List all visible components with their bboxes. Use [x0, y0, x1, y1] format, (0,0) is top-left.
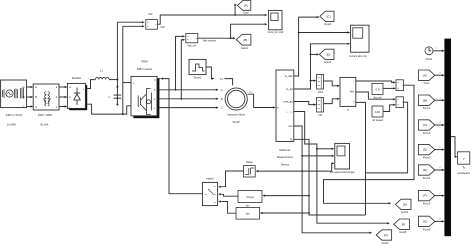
- from tag [A]: [418, 70, 434, 80]
- svg-text:From4: From4: [423, 176, 431, 180]
- svg-text:Vab_inv: Vab_inv: [187, 44, 197, 48]
- block: Induction Motor (asynchronous machine): [225, 88, 247, 110]
- svg-text:Goto5: Goto5: [399, 230, 407, 234]
- wire: from D to mux: [435, 149, 443, 151]
- svg-text:-: -: [133, 104, 134, 108]
- node: wm branch to relay and scope input 3: [301, 170, 303, 172]
- svg-text:[B]: [B]: [244, 38, 248, 42]
- wire: Relay output to switch input 1: [221, 171, 243, 187]
- block: Machines Measurement Demux: [276, 70, 294, 142]
- svg-text:Wm: Wm: [350, 91, 354, 93]
- svg-text:C: C: [23, 105, 25, 109]
- svg-text:[G]: [G]: [384, 233, 388, 237]
- wire: mux output to workspace: [451, 137, 456, 157]
- svg-text:C: C: [108, 95, 110, 99]
- block: CD1 (flux calc): [317, 74, 324, 89]
- wire: 0.9 to mux3 input 2: [383, 87, 394, 89]
- node: junction to Goto A: [234, 14, 236, 16]
- svg-text:wm: wm: [289, 125, 293, 128]
- svg-text:10 MVA: 10 MVA: [7, 122, 16, 126]
- scope: flux speed and torque: [335, 143, 350, 169]
- wire: is_abc to current scope input 1: [299, 32, 348, 34]
- node: is_qd branch to Goto3: [310, 54, 312, 56]
- wire: tap A up to Vab_inv input 1: [176, 36, 184, 89]
- svg-text:B: B: [221, 97, 223, 101]
- wire: scope input 3 feed running right: [302, 163, 332, 171]
- svg-text:From6: From6: [423, 227, 431, 231]
- wire: from B to mux: [435, 99, 443, 101]
- node: is_abc branch to current scope: [298, 32, 300, 34]
- goto tag [E]: [395, 199, 411, 209]
- wire: from E to mux: [435, 169, 443, 171]
- wire: Vdc sensor output to top bus line: [157, 15, 235, 24]
- mux: speed and ref speed: [396, 97, 403, 108]
- svg-text:[F]: [F]: [423, 194, 427, 198]
- node: Vab junction: [230, 37, 232, 39]
- wire: source A to transformer A: [27, 86, 31, 88]
- svg-text:Measurement: Measurement: [277, 155, 293, 159]
- svg-text:Tm: Tm: [220, 78, 224, 81]
- clock block: [425, 47, 433, 55]
- wire: switch output to inverter gate g: [162, 79, 202, 194]
- block: Relay: [243, 166, 255, 177]
- svg-text:wm: wm: [246, 213, 251, 216]
- node: tap on phase B for Vab: [180, 98, 182, 100]
- block: three-phase transformer 25kV/460V: [33, 84, 59, 110]
- wire: branch up to Goto tag A: [234, 5, 237, 15]
- svg-text:[D]: [D]: [327, 52, 331, 56]
- wire: rectifier + output up to L1: [85, 80, 95, 89]
- wire: wm output long vertical to Goto6: [294, 126, 370, 233]
- goto tag [A]: [237, 1, 250, 11]
- svg-text:Goto3: Goto3: [324, 60, 332, 64]
- svg-text:50 HP: 50 HP: [233, 120, 240, 124]
- block: Vdc voltage measurement: [146, 20, 158, 30]
- scope: current abc dq: [351, 25, 369, 52]
- node: capacitor bottom junction: [116, 104, 118, 106]
- svg-text:Goto2: Goto2: [324, 22, 332, 26]
- svg-text:Goto6: Goto6: [381, 241, 389, 245]
- block: torque selector: [238, 191, 262, 203]
- wire: Vab to Goto tag B: [231, 37, 234, 39]
- svg-text:-: -: [83, 104, 84, 108]
- wire: ct output 1 to mux3 input 1: [356, 81, 394, 82]
- svg-text:Vab inverter: Vab inverter: [203, 38, 217, 42]
- wire: Timer output to Tm: [206, 67, 212, 79]
- svg-text:[E]: [E]: [403, 203, 407, 207]
- wire: wm branch to flux scope input 2: [302, 155, 332, 157]
- wire: branch to wm block: [262, 212, 309, 214]
- node: flux branch to scope input 1: [316, 148, 318, 150]
- svg-text:workspace: workspace: [457, 171, 470, 175]
- svg-text:CD: CD: [319, 113, 323, 117]
- svg-text:Clock: Clock: [426, 57, 433, 61]
- block: CD (flux calc): [317, 97, 324, 112]
- svg-text:A: A: [35, 85, 37, 89]
- svg-text:Vdc: Vdc: [148, 12, 153, 16]
- svg-text:Goto1: Goto1: [241, 46, 249, 50]
- node: tap on phase A for Vab: [175, 89, 177, 91]
- from tag [C]: [418, 120, 434, 130]
- svg-text:[C]: [C]: [423, 123, 427, 127]
- wire: CD output to controller input 2: [324, 99, 338, 104]
- wire: ct Wm output to mux4 input 1: [356, 92, 394, 99]
- wire: DC plus rail to Vdc sensor input: [117, 21, 142, 23]
- goto tag [F]: [394, 219, 410, 229]
- svg-text:[E]: [E]: [423, 168, 427, 172]
- wire: from F to mux: [435, 195, 443, 197]
- wire: phase B inverter to motor: [159, 98, 216, 100]
- block: Timer (step source): [189, 59, 206, 74]
- node: is_qd branch to CD1: [310, 80, 312, 82]
- wire: relay feed running left: [258, 170, 303, 172]
- block: PWM IGBT Inverter: [133, 79, 159, 118]
- svg-text:[G]: [G]: [423, 220, 427, 224]
- block: ct vector controller subsystem: [340, 77, 356, 106]
- constant: 0.9 flux reference: [372, 83, 383, 94]
- wire: transformer c to rectifier C: [59, 106, 65, 108]
- wire: DC bus positive rail vertical: [116, 22, 118, 104]
- wire: Te output long vertical: [294, 139, 366, 215]
- wire: Te branch to torque block: [264, 195, 309, 197]
- wire: rectifier minus to inverter minus staple: [85, 104, 131, 114]
- svg-text:50 kVA: 50 kVA: [40, 122, 48, 126]
- svg-text:is_abc: is_abc: [285, 74, 293, 78]
- svg-text:Timer1: Timer1: [194, 75, 203, 79]
- svg-text:25kV / 460V: 25kV / 460V: [38, 113, 52, 117]
- wire: from G to mux: [435, 220, 443, 222]
- svg-text:Rectifier: Rectifier: [72, 76, 82, 80]
- icon: IGBT symbol inside inverter: [138, 89, 151, 115]
- svg-text:ct: ct: [347, 108, 349, 112]
- goto tag [G]: [376, 230, 391, 240]
- svg-text:Goto4: Goto4: [401, 210, 409, 214]
- block: Rectifier (diode bridge): [69, 85, 87, 110]
- block: three-phase voltage source 25 kV 50 Hz: [1, 80, 27, 108]
- node: wm branch to flux scope input 2: [301, 155, 303, 157]
- wire: tap B up to Vab_inv input 2: [181, 40, 183, 99]
- wire: DC bus negative rail vertical: [122, 26, 124, 114]
- wire: is_qd to vertical riser: [294, 44, 348, 89]
- svg-text:CD1: CD1: [318, 90, 324, 94]
- wire: torque block output to switch input 2: [221, 194, 238, 196]
- svg-text:Vdc: Vdc: [160, 25, 165, 29]
- from tag [G]: [418, 216, 434, 226]
- wire: ct T output down long vertical: [356, 102, 366, 215]
- wire: clock to mux input 1: [433, 50, 442, 52]
- svg-text:PWM: PWM: [141, 59, 147, 63]
- from tag [D]: [418, 144, 434, 154]
- wire: phase C inverter to motor: [159, 107, 216, 109]
- wire: CD1 output to controller input 1: [324, 81, 338, 86]
- svg-text:120: 120: [375, 110, 380, 114]
- svg-text:wm: wm: [246, 204, 250, 207]
- wire: 120 to mux4 input 2: [383, 105, 394, 112]
- svg-text:A: A: [23, 85, 25, 89]
- wire: DC minus rail to Vdc sensor input: [123, 25, 143, 27]
- svg-text:phis_qd: phis_qd: [284, 100, 294, 104]
- wire: source C to transformer C: [27, 106, 31, 108]
- from tag [F]: [418, 190, 434, 200]
- wire: is_qd branch into CD1: [311, 80, 315, 82]
- wire: wm block output to switch input 3: [221, 202, 236, 214]
- svg-text:ref speed: ref speed: [372, 118, 383, 122]
- wire: vs_qd output to flux path: [294, 112, 388, 224]
- svg-text:[C]: [C]: [327, 14, 331, 18]
- svg-text:From: From: [424, 81, 430, 85]
- svg-text:C: C: [221, 106, 223, 110]
- svg-text:flux speed and torque: flux speed and torque: [330, 170, 356, 174]
- capacitor C on DC bus: [114, 95, 122, 98]
- wire: motor m output to demux input: [247, 94, 273, 107]
- icon: diode symbol inside rectifier: [74, 88, 80, 106]
- svg-text:From5: From5: [423, 202, 431, 206]
- wire: is_qd branch to Goto tag D: [311, 53, 317, 55]
- svg-text:[D]: [D]: [423, 148, 427, 152]
- svg-text:vs_qd: vs_qd: [286, 110, 293, 114]
- wire: from A to mux: [435, 74, 443, 76]
- svg-text:[B]: [B]: [423, 98, 427, 102]
- wire: from C to mux: [435, 124, 443, 126]
- svg-text:A: A: [221, 88, 223, 92]
- node: negative bus junction: [122, 113, 124, 115]
- svg-text:From1: From1: [423, 106, 431, 110]
- wire: transformer a to rectifier A: [59, 86, 65, 88]
- wire: mux4 output down: [366, 102, 408, 173]
- node: Te branch to wm block: [308, 212, 310, 214]
- svg-text:Machines: Machines: [279, 148, 291, 152]
- svg-text:Induction Motor: Induction Motor: [227, 113, 245, 117]
- svg-text:Conv_inv volt: Conv_inv volt: [268, 30, 284, 34]
- svg-text:[A]: [A]: [244, 4, 248, 8]
- svg-text:switch: switch: [206, 177, 214, 181]
- goto tag [B]: [236, 34, 251, 45]
- svg-text:IGBT Inverter: IGBT Inverter: [137, 67, 153, 71]
- wire: Vab up to converter scope input 2: [231, 24, 265, 38]
- svg-text:[F]: [F]: [402, 222, 406, 226]
- svg-text:C: C: [35, 105, 37, 109]
- wire: source B to transformer B: [27, 96, 31, 98]
- svg-text:From2: From2: [423, 131, 431, 135]
- wire: is_abc to vertical riser: [294, 17, 317, 76]
- svg-text:Demux: Demux: [281, 162, 290, 166]
- wire: L1 to DC bus node: [109, 79, 117, 81]
- svg-text:is_qd: is_qd: [286, 87, 293, 91]
- wire: transformer b to rectifier B: [59, 96, 65, 98]
- svg-text:0.9: 0.9: [375, 87, 380, 91]
- svg-text:m: m: [277, 107, 279, 110]
- goto tag [D]: [319, 49, 334, 59]
- node: Te branch to torque block: [308, 195, 310, 197]
- svg-text:current abc, dq: current abc, dq: [349, 54, 367, 58]
- svg-text:B: B: [23, 95, 25, 99]
- svg-text:torque: torque: [246, 195, 254, 199]
- block: wm selector: [236, 208, 260, 220]
- goto tag [C]: [320, 11, 334, 21]
- wire: Vab_inv output to junction: [198, 37, 231, 39]
- constant: 120 speed reference: [372, 106, 383, 117]
- wire: DC plus to inverter +: [123, 82, 131, 84]
- svg-text:[A]: [A]: [423, 73, 427, 77]
- wire: flux branch to flux scope input 1: [317, 148, 332, 150]
- wire: phase A inverter to motor: [159, 89, 216, 91]
- node: DC plus junction: [116, 79, 118, 81]
- svg-text:From3: From3: [423, 156, 431, 160]
- mux: main signal mux (black bar): [444, 39, 451, 237]
- wire: Vdc line to converter scope input 1: [235, 14, 265, 16]
- block: y To workspace: [458, 152, 470, 164]
- svg-text:B: B: [35, 95, 37, 99]
- block: Vab_inv voltage measurement: [186, 33, 198, 42]
- inductor L1: [95, 78, 109, 80]
- svg-text:Relay: Relay: [246, 160, 253, 164]
- svg-text:Goto: Goto: [243, 10, 249, 14]
- wire: mux3 output down the right side: [324, 85, 415, 203]
- wire: Tm into motor top: [224, 79, 232, 86]
- wire: phis_qd into CD: [294, 102, 314, 105]
- svg-text:2400 V, 50 Hz: 2400 V, 50 Hz: [6, 113, 23, 117]
- mux: flux and flux ref: [396, 80, 403, 91]
- block: switch (flipped): [202, 182, 217, 205]
- from tag [E]: [418, 165, 434, 175]
- node: capacitor top junction: [116, 86, 118, 88]
- scope: Conv_inv volt: [269, 10, 282, 29]
- from tag [B]: [418, 95, 434, 105]
